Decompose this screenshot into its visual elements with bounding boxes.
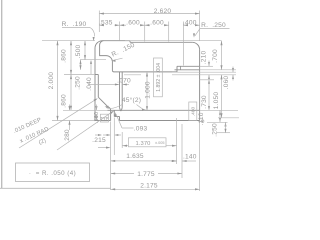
ext line y122.3 right <box>207 121 228 123</box>
ext line 182 down <box>181 124 183 178</box>
svg-text:.070: .070 <box>117 77 131 84</box>
svg-text:1.000: 1.000 <box>145 81 152 99</box>
dim 2.620 <box>99 8 199 15</box>
ext line y74.8 right <box>172 74 236 76</box>
dim .070 <box>88 77 131 85</box>
ext line y41 left <box>42 40 95 42</box>
svg-text:.280: .280 <box>64 129 71 143</box>
dim .700 <box>212 41 223 70</box>
dim .210 <box>201 51 211 81</box>
label 45 deg <box>105 96 146 111</box>
svg-text:.860: .860 <box>61 94 68 108</box>
label R .150 <box>111 42 136 62</box>
svg-text:TYP: TYP <box>100 116 108 121</box>
radius marker dot <box>201 120 204 123</box>
part rib <box>120 72 123 111</box>
ext line y117.8 right <box>218 117 239 119</box>
svg-text:· = R. .050 (4): · = R. .050 (4) <box>29 170 76 177</box>
dim .060 <box>223 67 234 90</box>
svg-text:.700: .700 <box>212 49 219 63</box>
svg-text:R. .250: R. .250 <box>201 22 226 29</box>
ext line slot <box>110 122 112 191</box>
ext line 176.5 down <box>176 118 178 164</box>
ext line bottom left <box>52 120 95 122</box>
svg-text:1.050: 1.050 <box>213 92 220 110</box>
dim .250 right <box>212 122 227 137</box>
dim .110 <box>198 111 221 126</box>
ext line step <box>119 22 121 41</box>
ext line 114.3 down <box>113 118 115 156</box>
ext line y74.5 left <box>64 74 95 76</box>
ext line left top <box>98 11 100 33</box>
ext line y74.8 cavity <box>124 74 141 76</box>
dim .860 upper <box>61 41 73 75</box>
svg-text:.500: .500 <box>75 45 82 59</box>
svg-text:.480: .480 <box>191 107 197 117</box>
ext line 168.7 <box>168 22 170 42</box>
svg-text:.100: .100 <box>94 112 100 124</box>
dim 1.050 <box>213 75 223 118</box>
dim .860 lower <box>61 75 73 111</box>
svg-text:1.775: 1.775 <box>137 171 155 178</box>
label R .190 <box>62 21 95 41</box>
boxed dim 1.892 <box>154 58 163 97</box>
svg-text:.060: .060 <box>223 76 230 90</box>
dim .093 <box>103 112 147 136</box>
svg-text:.860: .860 <box>61 49 68 63</box>
sheet border left edge <box>1 0 3 188</box>
dim .400 <box>183 20 200 27</box>
svg-text:.210: .210 <box>201 51 208 65</box>
dim 2.000 <box>48 41 59 121</box>
ext line floor left <box>63 109 108 111</box>
note .010 deep text <box>13 117 50 146</box>
ext line y69.8 right <box>200 69 236 71</box>
ext line 183.4 <box>182 22 184 66</box>
dim .040 <box>86 60 93 91</box>
dim .600 a <box>120 20 145 27</box>
svg-text:.250: .250 <box>75 76 82 90</box>
svg-text:1.892 ± .004: 1.892 ± .004 <box>156 63 162 92</box>
dim 2.175 <box>111 182 200 190</box>
svg-text:2.175: 2.175 <box>140 182 158 189</box>
svg-text:2.000: 2.000 <box>48 72 55 90</box>
dim .100 typ <box>94 105 109 124</box>
dim 1.635 <box>111 153 177 162</box>
ext line right down <box>199 121 201 192</box>
svg-text:.250: .250 <box>212 123 219 137</box>
dim .600 b <box>145 20 169 27</box>
svg-text:.730: .730 <box>201 95 208 109</box>
svg-text:±.005: ±.005 <box>155 141 164 145</box>
dim .215 <box>92 134 110 149</box>
dim .280 <box>64 105 71 143</box>
part outline <box>95 41 200 121</box>
svg-text:.600: .600 <box>150 20 164 27</box>
ext line y59.7 <box>80 59 106 61</box>
ext line y40.7 right <box>125 40 222 42</box>
dim .535 <box>99 20 120 27</box>
svg-text:1.635: 1.635 <box>126 153 144 160</box>
svg-text:.535: .535 <box>99 20 113 27</box>
note .010 deep leader <box>19 98 114 150</box>
dim .500 <box>75 41 86 60</box>
dim 1.000 <box>145 72 152 111</box>
ext line rib down <box>121 132 123 148</box>
ext line y72.2 right <box>172 71 236 73</box>
boxed dim 1.370 <box>122 138 176 147</box>
label R .250 <box>193 22 230 38</box>
svg-text:.110: .110 <box>198 112 205 125</box>
svg-text:2.620: 2.620 <box>154 8 172 15</box>
ext line y79.8 right <box>200 79 214 81</box>
svg-text:.093: .093 <box>134 125 148 132</box>
sheet border bottom edge <box>0 187 110 189</box>
svg-text:.600: .600 <box>126 20 140 27</box>
boxed dim .480 <box>189 102 197 121</box>
dim 1.775 <box>111 171 182 178</box>
ext line right top <box>199 11 201 42</box>
dim .250 left <box>75 60 82 90</box>
svg-text:45°(2): 45°(2) <box>122 96 141 104</box>
ext line y132.7 right <box>217 132 230 134</box>
svg-text:.040: .040 <box>86 77 93 91</box>
svg-text:1.370: 1.370 <box>135 141 150 147</box>
svg-text:.140: .140 <box>183 153 197 160</box>
dim .730 <box>201 80 210 111</box>
legend box <box>16 163 90 182</box>
ext line y66.3 right <box>200 65 213 67</box>
svg-text:.400: .400 <box>183 20 197 27</box>
ext line 144.7 <box>144 22 146 42</box>
svg-text:.215: .215 <box>92 137 106 144</box>
dim .140 <box>171 153 197 162</box>
ext line floor right <box>200 109 238 111</box>
